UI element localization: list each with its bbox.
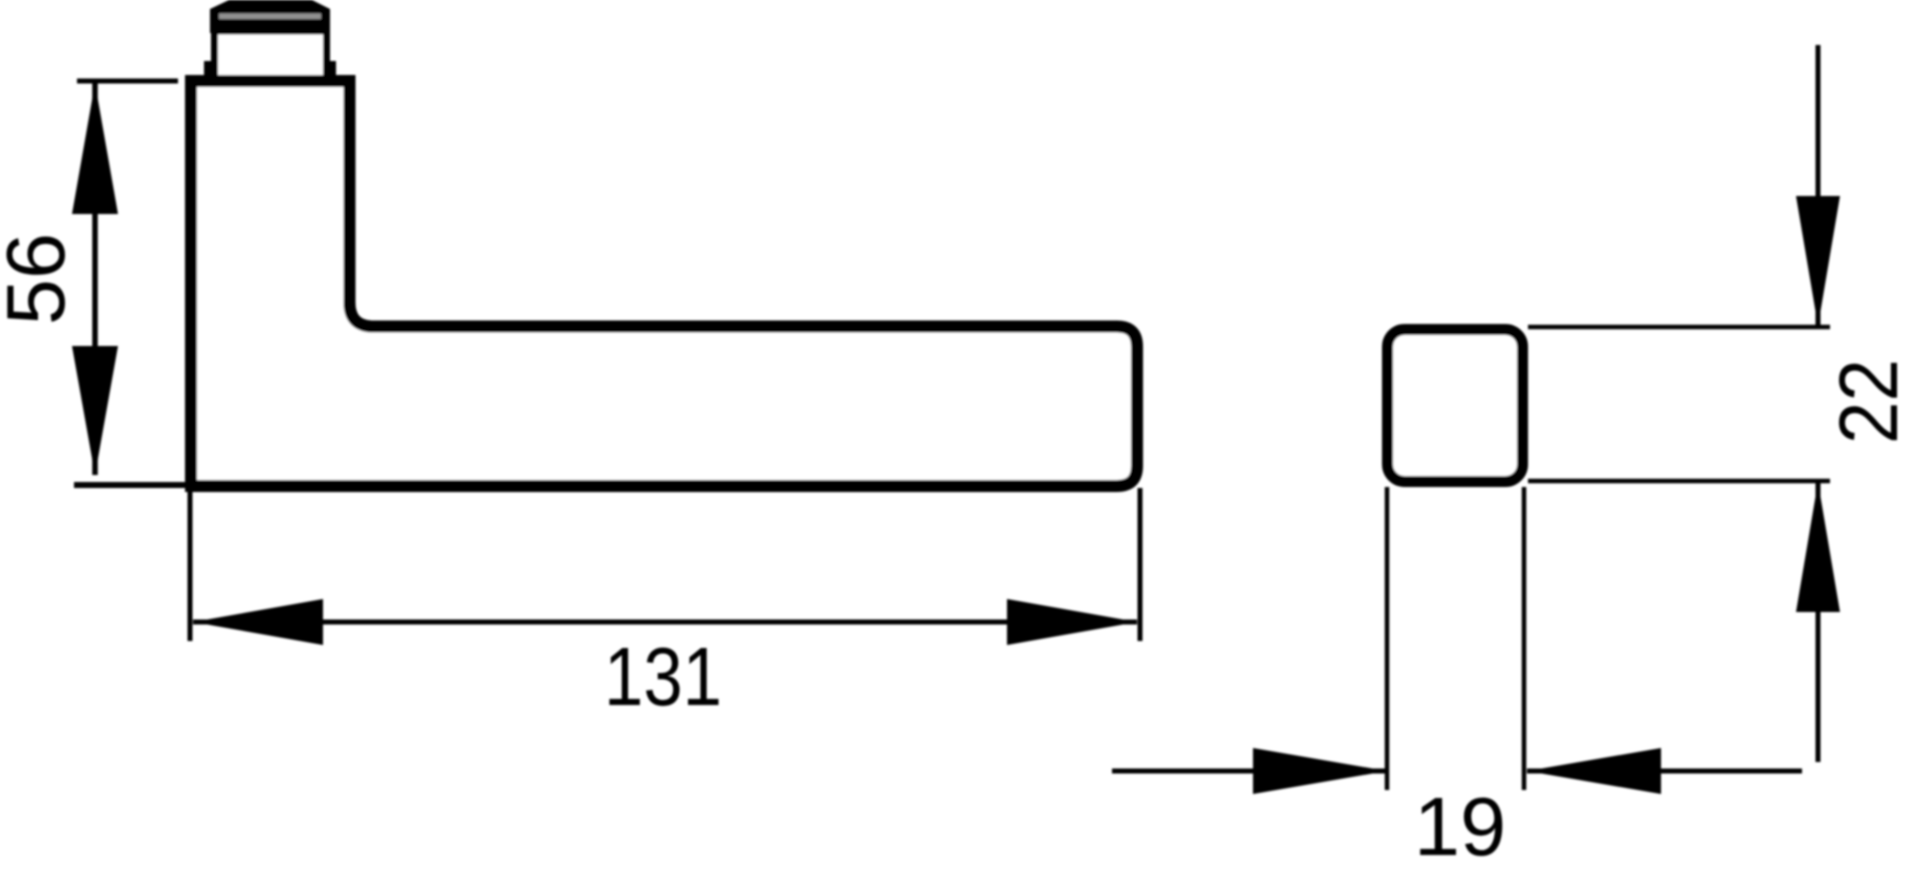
svg-text:19: 19 (1414, 780, 1506, 873)
svg-text:131: 131 (604, 630, 722, 723)
svg-text:56: 56 (0, 233, 82, 325)
svg-text:22: 22 (1822, 359, 1915, 444)
